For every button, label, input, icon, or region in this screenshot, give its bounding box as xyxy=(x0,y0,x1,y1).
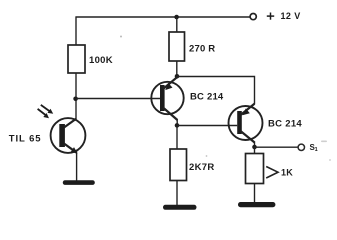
label +12V xyxy=(267,11,301,21)
svg-text:TIL 65: TIL 65 xyxy=(9,133,42,144)
label BC214 (Q2) xyxy=(268,118,302,129)
svg-text:BC 214: BC 214 xyxy=(268,118,302,129)
wire: rail down to 100K top xyxy=(75,17,77,46)
svg-text:BC 214: BC 214 xyxy=(190,91,224,102)
resistor R1 100K xyxy=(68,45,85,73)
ground (2K7R) xyxy=(163,205,197,210)
wire: 100K bottom to TIL65 collector xyxy=(75,73,77,119)
wire: node to Q2 base xyxy=(177,125,237,127)
node: junction 100K / TIL65 / Q1 base xyxy=(73,97,78,102)
label 270R xyxy=(189,43,215,54)
resistor R2 270R xyxy=(169,32,185,61)
svg-text:1K: 1K xyxy=(281,168,293,178)
label TIL 65 xyxy=(9,133,42,144)
power terminal +12V (open circle) xyxy=(250,14,256,20)
svg-text:12 V: 12 V xyxy=(281,11,301,21)
ground (1K) xyxy=(238,202,275,207)
wire: 270R bottom to emitter node xyxy=(176,61,178,77)
wire: TIL65 emitter to ground xyxy=(76,153,78,181)
output terminal S (open circle) xyxy=(298,144,304,150)
wire: emitter node across and down to Q2 emitter xyxy=(177,77,255,105)
svg-text:270 R: 270 R xyxy=(189,43,215,54)
svg-text:1: 1 xyxy=(315,147,318,153)
wire: node down to 2K7R top xyxy=(176,126,178,150)
wire: 1K bottom to ground xyxy=(254,184,256,203)
label BC214 (Q1) xyxy=(190,91,224,102)
svg-text:100K: 100K xyxy=(89,55,113,66)
node: rail junction above 270R xyxy=(174,15,179,20)
phototransistor TIL65 xyxy=(51,118,86,153)
resistor R4 1K xyxy=(246,154,264,184)
ground (TIL65 emitter) xyxy=(63,180,95,185)
node: output junction xyxy=(252,145,257,150)
label S xyxy=(310,143,318,153)
wire: +12V top supply rail xyxy=(76,16,251,18)
svg-text:2K7R: 2K7R xyxy=(189,162,215,173)
resistor R3 2K7R xyxy=(170,149,187,181)
wire: Q2 collector stub to output node xyxy=(254,142,256,148)
label 1K with > mark xyxy=(266,167,293,179)
wire: output node to terminal S xyxy=(255,146,299,148)
wire: output node down to 1K top xyxy=(254,147,256,154)
wire: 2K7R bottom to ground xyxy=(176,181,178,206)
transistor Q2 BC214 xyxy=(229,104,263,143)
wire: junction to Q1 base xyxy=(76,98,160,100)
wire: rail junction down to 270R top xyxy=(176,17,178,33)
wire: Q1 collector stub to node xyxy=(176,119,178,126)
light arrows into TIL65 xyxy=(38,105,54,118)
label 2K7R xyxy=(189,162,215,173)
transistor Q1 BC214 xyxy=(151,77,183,120)
node: shared emitter junction xyxy=(175,74,180,79)
node: Q1 collector / Q2 base / 2K7R junction xyxy=(175,123,180,128)
label 100K xyxy=(89,55,113,66)
faint scan specks xyxy=(120,36,331,162)
